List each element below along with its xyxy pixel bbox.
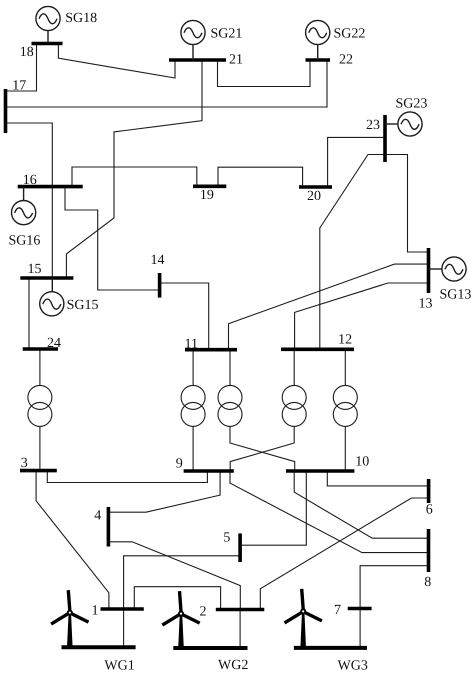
- wire 20-23: [328, 137, 385, 187]
- generator SG16: [12, 187, 36, 225]
- bus 13: [427, 248, 431, 293]
- wire 1-5: [124, 556, 241, 609]
- bus 15: [20, 276, 73, 280]
- bus 10: [286, 469, 354, 473]
- wire 15-21: [66, 60, 202, 278]
- bus 17: [4, 89, 8, 133]
- bus 22: [306, 58, 331, 62]
- svg-text:SG21: SG21: [211, 26, 243, 41]
- svg-text:20: 20: [307, 189, 321, 204]
- wind generator WG1 turbine: [51, 590, 88, 624]
- svg-text:8: 8: [424, 575, 431, 590]
- wind generator WG1 base: [62, 645, 136, 649]
- wire 12-13: [295, 283, 429, 349]
- wire WG3 stem: [359, 609, 361, 649]
- wire 19-20: [218, 167, 303, 187]
- wire 21-22: [218, 60, 311, 87]
- svg-text:10: 10: [355, 455, 369, 470]
- wire 17-22: [7, 60, 328, 107]
- wire 8-10: [294, 471, 428, 538]
- wire 4-9: [108, 471, 220, 512]
- generator SG15: [40, 278, 64, 316]
- wire 12-23: [320, 155, 385, 350]
- wire 15-16: [51, 187, 53, 278]
- wire 11-13: [229, 264, 429, 350]
- svg-text:WG1: WG1: [104, 658, 134, 673]
- wire 2-4: [108, 542, 240, 610]
- bus 12: [281, 347, 354, 351]
- wind generator WG3 turbine: [285, 589, 322, 623]
- bus 11: [185, 348, 237, 352]
- bus 2: [216, 608, 264, 612]
- wire 6-10: [327, 471, 428, 486]
- svg-text:24: 24: [47, 336, 61, 351]
- svg-text:SG23: SG23: [396, 96, 428, 111]
- bus 8: [427, 529, 431, 572]
- wire 3-9: [47, 471, 207, 483]
- bus 19: [193, 185, 226, 189]
- transformer 9-12: [230, 349, 306, 471]
- svg-text:11: 11: [185, 337, 198, 352]
- svg-text:5: 5: [223, 531, 230, 546]
- svg-text:16: 16: [23, 173, 37, 188]
- wire 16-17: [7, 123, 53, 187]
- wire 14-16: [65, 187, 160, 290]
- svg-text:13: 13: [419, 296, 433, 311]
- transformer 9-11: [181, 350, 205, 471]
- wire 2-6: [260, 498, 428, 610]
- svg-text:WG3: WG3: [338, 659, 368, 674]
- wind generator WG2 turbine: [162, 591, 199, 625]
- svg-text:7: 7: [334, 603, 341, 618]
- wire 13-23: [385, 155, 429, 253]
- transformer 3-24: [28, 349, 52, 471]
- bus 4: [107, 507, 111, 547]
- wire 18-21: [58, 44, 175, 79]
- generator SG22: [306, 20, 330, 60]
- bus 7: [348, 607, 372, 611]
- wire WG1 stem: [123, 609, 125, 647]
- svg-text:9: 9: [176, 457, 183, 472]
- svg-text:WG2: WG2: [218, 658, 248, 673]
- svg-text:SG16: SG16: [9, 233, 41, 248]
- wire 5-10: [240, 471, 306, 545]
- wire 7-8: [360, 566, 428, 609]
- transformer 10-11: [218, 350, 295, 471]
- svg-text:SG13: SG13: [440, 287, 472, 302]
- wire 11-14: [160, 283, 209, 350]
- bus 16: [18, 185, 83, 189]
- wire 15-24: [28, 278, 30, 349]
- svg-text:17: 17: [12, 79, 26, 94]
- wire 1-2: [134, 587, 220, 610]
- svg-text:14: 14: [151, 253, 165, 268]
- bus 14: [158, 273, 162, 298]
- transformer 10-12: [333, 349, 357, 471]
- wire 16-19: [72, 167, 197, 187]
- wire 1-3: [36, 471, 109, 609]
- wire WG2 stem: [239, 610, 241, 649]
- svg-text:SG22: SG22: [334, 26, 366, 41]
- bus 20: [299, 185, 332, 189]
- bus 6: [427, 479, 431, 503]
- svg-text:2: 2: [200, 605, 207, 620]
- bus 5: [238, 533, 242, 562]
- generator SG18: [36, 6, 60, 43]
- svg-text:6: 6: [426, 503, 433, 518]
- svg-text:19: 19: [200, 188, 214, 203]
- bus 9: [184, 469, 234, 473]
- wind generator WG3 base: [294, 646, 367, 650]
- bus 21: [169, 58, 226, 62]
- bus 1: [101, 607, 144, 611]
- svg-text:1: 1: [92, 603, 99, 618]
- bus 23: [383, 115, 387, 162]
- svg-text:4: 4: [94, 509, 101, 524]
- bus 3: [20, 469, 57, 473]
- wire 17-18: [7, 44, 37, 92]
- generator SG13: [429, 257, 467, 281]
- svg-text:12: 12: [338, 333, 352, 348]
- svg-text:15: 15: [28, 262, 42, 277]
- svg-text:SG18: SG18: [65, 11, 97, 26]
- generator SG21: [181, 20, 205, 60]
- svg-text:23: 23: [366, 118, 380, 133]
- generator SG23: [385, 112, 422, 136]
- svg-text:18: 18: [20, 45, 34, 60]
- bus 18: [32, 42, 63, 46]
- wind generator WG2 base: [173, 646, 247, 650]
- svg-text:22: 22: [339, 53, 353, 68]
- bus 24: [23, 347, 58, 351]
- svg-text:SG15: SG15: [67, 298, 99, 313]
- svg-text:3: 3: [21, 456, 28, 471]
- svg-text:21: 21: [229, 53, 243, 68]
- wire 8-9: [230, 471, 429, 553]
